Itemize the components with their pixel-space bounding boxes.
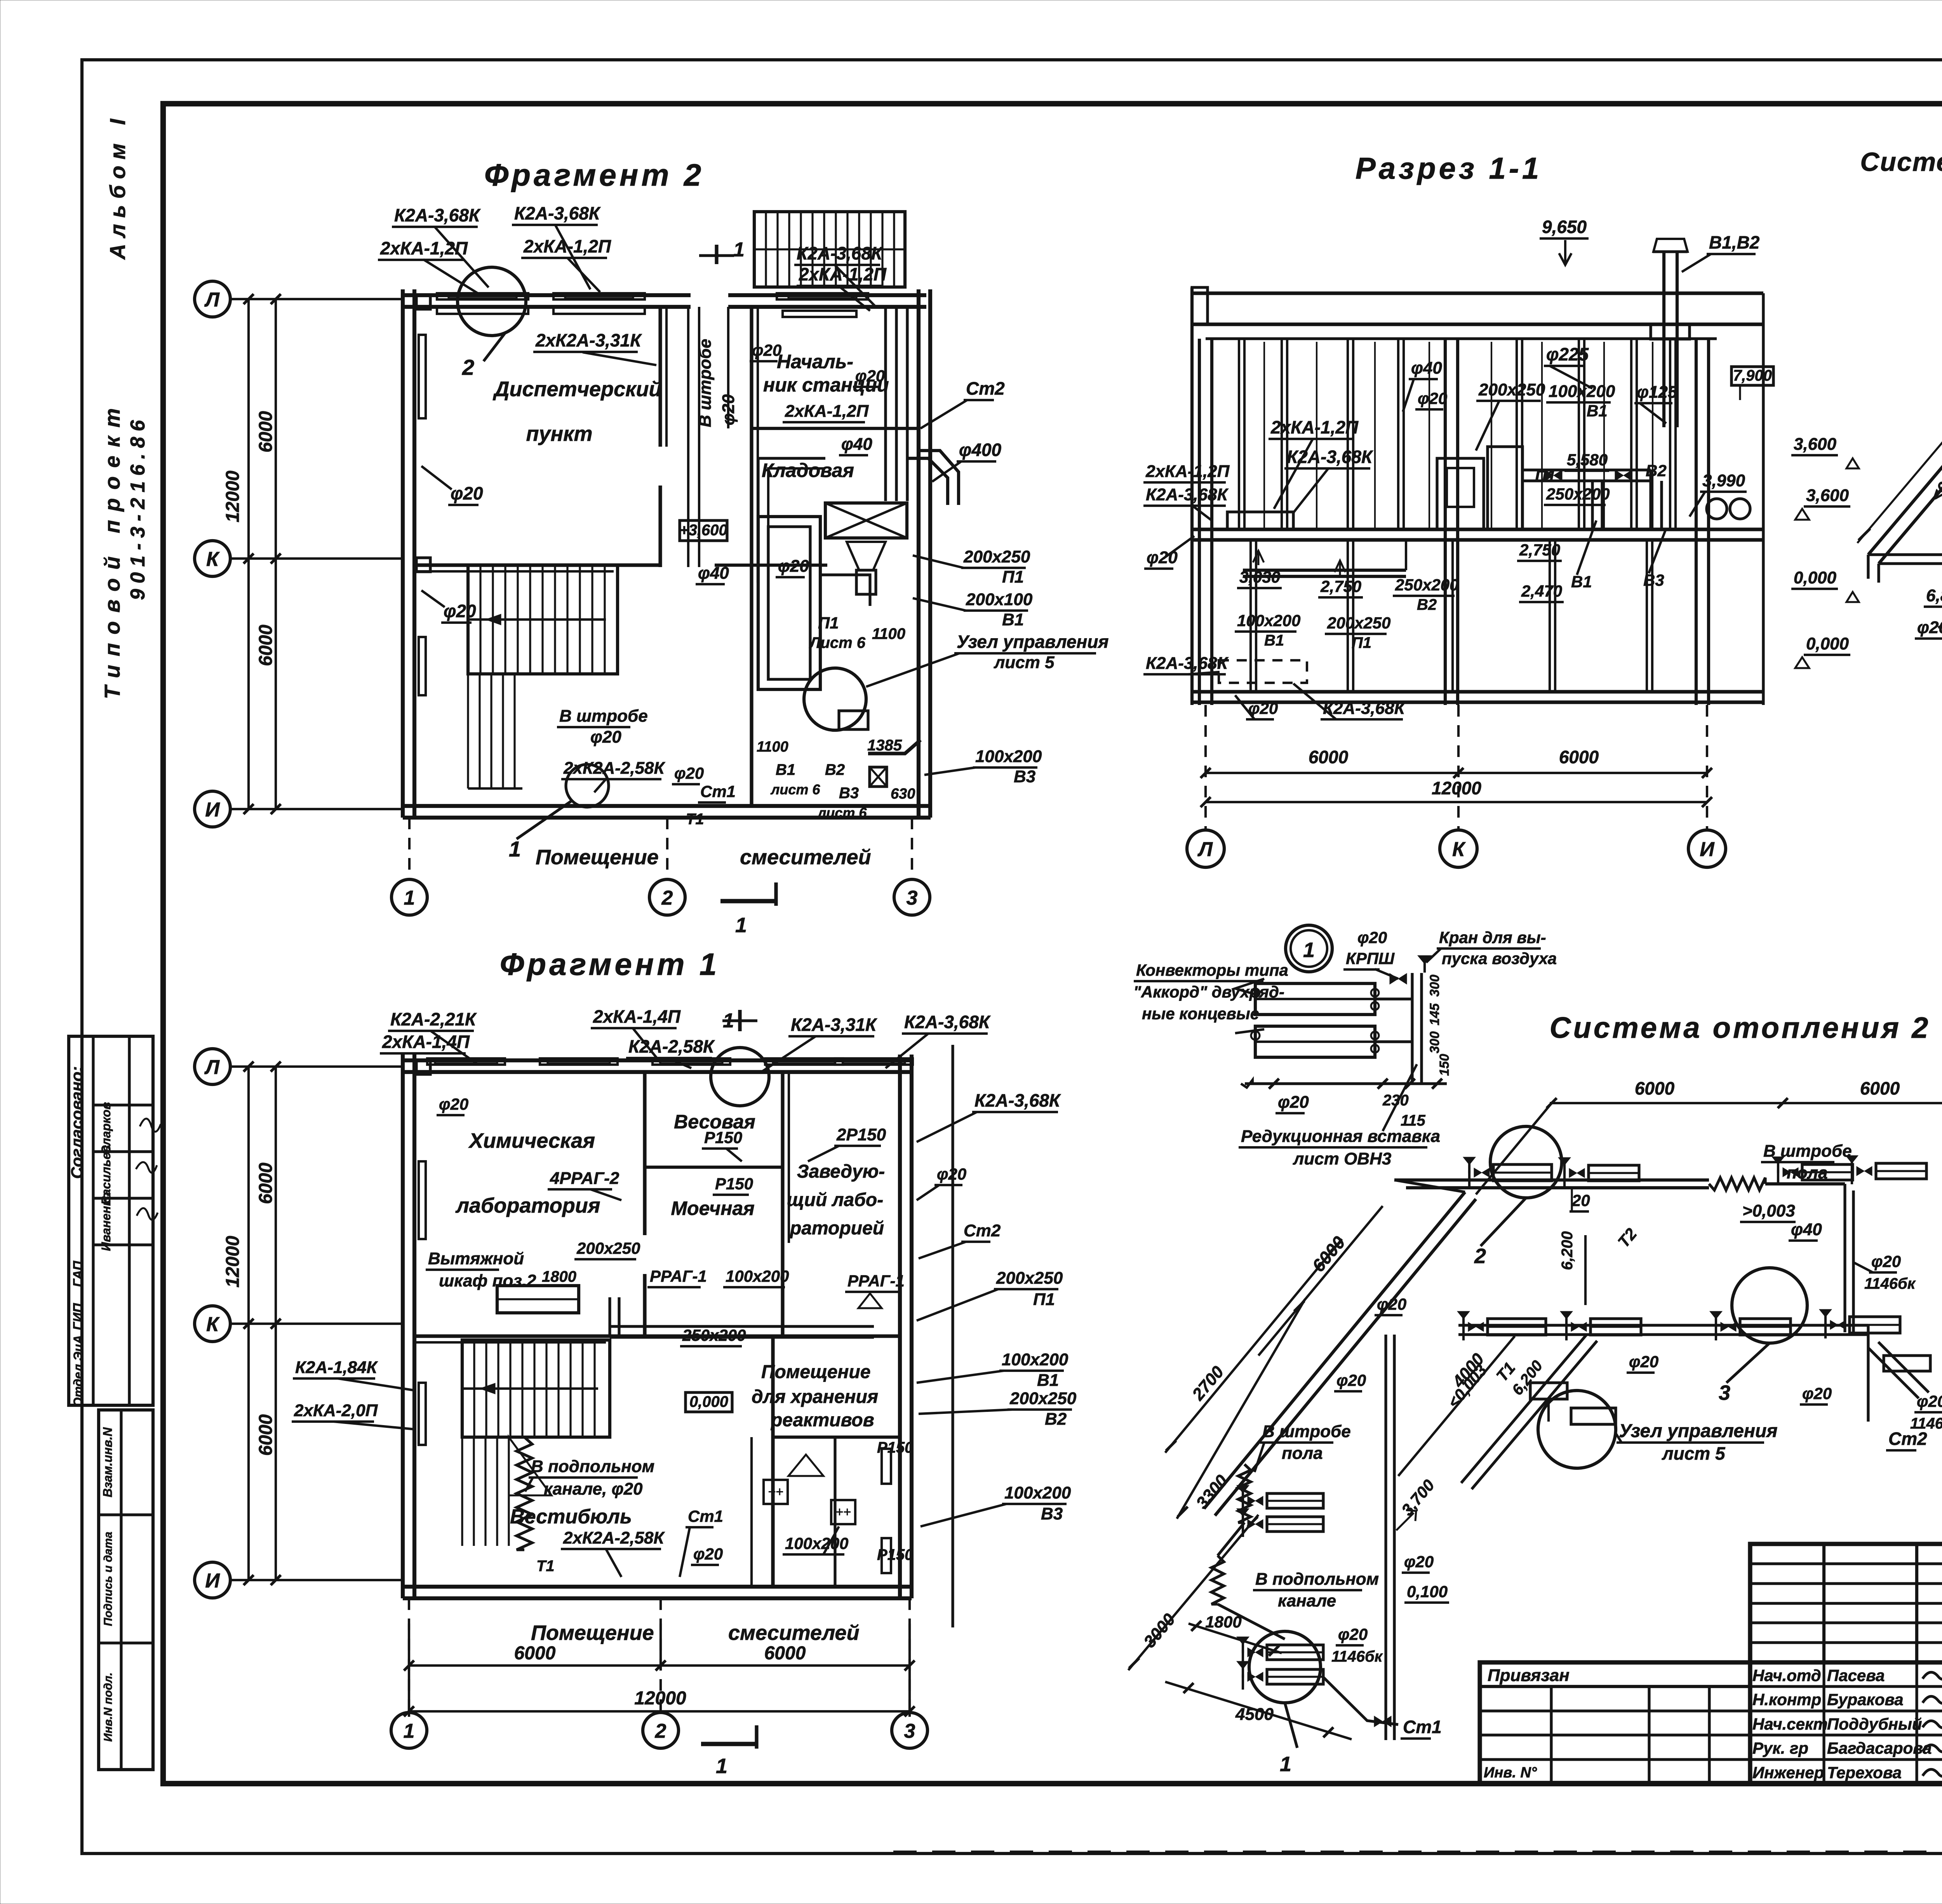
svg-text:++: ++ [768, 1485, 783, 1499]
svg-text:4РРАГ-2: 4РРАГ-2 [550, 1169, 619, 1188]
svg-text:Редукционная вставка: Редукционная вставка [1241, 1127, 1440, 1146]
svg-text:Диспетчерский: Диспетчерский [493, 378, 662, 401]
svg-text:1: 1 [404, 887, 415, 909]
svg-text:К2А-3,68К: К2А-3,68К [514, 203, 601, 223]
svg-text:100х200: 100х200 [1002, 1350, 1068, 1369]
svg-text:6000: 6000 [1309, 747, 1349, 767]
svg-text:φ20: φ20 [693, 1545, 723, 1563]
svg-text:2хК2А-2,58К: 2хК2А-2,58К [563, 759, 666, 778]
svg-text:2хКА-1,2П: 2хКА-1,2П [1270, 417, 1359, 437]
svg-text:К2А-2,58К: К2А-2,58К [628, 1036, 715, 1056]
svg-text:В штробе: В штробе [559, 707, 648, 726]
svg-text:К: К [1452, 838, 1466, 861]
svg-text:Система отопления 2: Система отопления 2 [1550, 1011, 1931, 1044]
svg-text:шкаф поз.2: шкаф поз.2 [439, 1271, 536, 1290]
svg-text:12000: 12000 [223, 1236, 243, 1288]
svg-text:2Р150: 2Р150 [836, 1125, 886, 1144]
svg-text:Моечная: Моечная [671, 1197, 754, 1219]
svg-text:Иваненко: Иваненко [99, 1192, 113, 1251]
svg-text:12000: 12000 [1432, 778, 1481, 798]
svg-text:К2А-3,68К: К2А-3,68К [1146, 654, 1229, 673]
svg-text:100х200: 100х200 [975, 747, 1042, 766]
svg-text:Багдасарова: Багдасарова [1827, 1739, 1932, 1757]
svg-text:φ20: φ20 [1629, 1352, 1658, 1371]
svg-text:φ20: φ20 [1377, 1295, 1406, 1313]
svg-text:1800: 1800 [542, 1268, 576, 1285]
svg-text:К2А-1,84К: К2А-1,84К [295, 1358, 378, 1377]
svg-text:Л: Л [1197, 838, 1213, 861]
svg-text:φ20: φ20 [444, 601, 476, 621]
svg-text:9,650: 9,650 [1542, 217, 1587, 237]
svg-text:щий лабо-: щий лабо- [787, 1190, 883, 1210]
svg-text:Узел управления: Узел управления [1619, 1421, 1778, 1441]
svg-text:φ20: φ20 [1248, 699, 1278, 717]
svg-text:Конвекторы типа: Конвекторы типа [1136, 961, 1288, 979]
svg-text:12000: 12000 [223, 470, 243, 522]
svg-text:2,750: 2,750 [1320, 577, 1361, 595]
svg-text:Кладовая: Кладовая [762, 459, 854, 481]
svg-text:φ40: φ40 [698, 564, 729, 583]
svg-text:<0,003: <0,003 [1926, 453, 1942, 506]
svg-text:200х250: 200х250 [1327, 614, 1391, 632]
svg-text:2хКА-1,2П: 2хКА-1,2П [1145, 462, 1230, 481]
svg-text:В штробе: В штробе [696, 339, 715, 427]
svg-text:Вестибюль: Вестибюль [510, 1505, 632, 1528]
svg-text:Заведую-: Заведую- [797, 1161, 885, 1182]
svg-text:лист 6: лист 6 [770, 781, 820, 797]
svg-text:ГИП: ГИП [71, 1303, 85, 1330]
svg-text:1385: 1385 [867, 737, 902, 754]
svg-text:φ20: φ20 [674, 764, 704, 782]
svg-text:2,750: 2,750 [1519, 541, 1560, 559]
svg-text:для хранения: для хранения [752, 1387, 878, 1407]
svg-text:1100: 1100 [872, 625, 905, 642]
svg-text:К2А-3,68К: К2А-3,68К [394, 205, 481, 225]
svg-text:φ20: φ20 [855, 367, 885, 385]
svg-text:6000: 6000 [1860, 1078, 1900, 1098]
svg-text:2хК2А-3,31К: 2хК2А-3,31К [535, 330, 642, 350]
svg-text:РРАГ-1: РРАГ-1 [847, 1272, 905, 1290]
svg-text:канале, φ20: канале, φ20 [544, 1479, 643, 1498]
svg-text:1: 1 [716, 1754, 727, 1778]
svg-text:пола: пола [1787, 1163, 1828, 1182]
svg-text:смесителей: смесителей [740, 846, 871, 869]
svg-text:250х200: 250х200 [1546, 485, 1610, 503]
svg-text:6000: 6000 [256, 1414, 276, 1456]
svg-text:φ40: φ40 [1411, 359, 1442, 378]
svg-text:Нач.сект: Нач.сект [1752, 1715, 1828, 1733]
svg-text:2хКА-1,2П: 2хКА-1,2П [799, 264, 887, 284]
svg-text:В штробе: В штробе [1763, 1142, 1852, 1161]
svg-text:В1: В1 [776, 761, 795, 778]
svg-text:2: 2 [1474, 1244, 1486, 1268]
svg-text:Л: Л [204, 289, 220, 311]
svg-text:В штробе: В штробе [1262, 1422, 1351, 1441]
svg-text:0,000: 0,000 [689, 1393, 728, 1410]
svg-text:φ225: φ225 [1546, 344, 1589, 364]
svg-text:2хКА-1,2П: 2хКА-1,2П [785, 402, 869, 421]
svg-text:лист 6: лист 6 [817, 805, 867, 821]
svg-text:Р150: Р150 [704, 1128, 742, 1147]
svg-text:Подпись и дата: Подпись и дата [102, 1532, 115, 1626]
svg-text:Ст1: Ст1 [1403, 1717, 1442, 1737]
svg-text:К2А-3,68К: К2А-3,68К [974, 1090, 1061, 1110]
svg-text:6,200: 6,200 [1559, 1231, 1576, 1270]
svg-text:200х250: 200х250 [963, 547, 1030, 566]
svg-text:145: 145 [1427, 1003, 1442, 1025]
svg-text:100х200: 100х200 [1004, 1483, 1071, 1502]
svg-text:901-3-216.86: 901-3-216.86 [127, 415, 149, 600]
svg-text:250х200: 250х200 [1395, 576, 1459, 594]
svg-text:Терехова: Терехова [1827, 1763, 1902, 1782]
svg-text:В2: В2 [1417, 596, 1437, 613]
svg-text:1: 1 [404, 1720, 415, 1742]
svg-text:В1: В1 [1037, 1371, 1059, 1390]
svg-text:7,900: 7,900 [1733, 367, 1772, 384]
svg-text:Помещение: Помещение [536, 846, 659, 869]
svg-text:2хКА-1,4П: 2хКА-1,4П [593, 1006, 681, 1027]
svg-text:1: 1 [733, 238, 745, 261]
svg-text:Р150: Р150 [715, 1175, 753, 1193]
svg-text:РРАГ-1: РРАГ-1 [650, 1267, 707, 1285]
svg-text:Ст2: Ст2 [964, 1221, 1001, 1240]
svg-text:П1: П1 [1535, 467, 1556, 485]
svg-text:3300: 3300 [1192, 1471, 1232, 1513]
svg-text:6,800: 6,800 [1926, 586, 1942, 605]
svg-text:2: 2 [655, 1720, 666, 1742]
svg-text:реактивов: реактивов [770, 1410, 874, 1431]
svg-text:К: К [206, 1313, 220, 1336]
svg-text:φ125: φ125 [1637, 383, 1677, 402]
svg-text:Привязан: Привязан [1488, 1666, 1570, 1685]
svg-text:6000: 6000 [256, 1163, 276, 1204]
svg-text:ные концевые: ные концевые [1142, 1004, 1259, 1023]
svg-text:2: 2 [661, 887, 673, 909]
svg-text:3,600: 3,600 [1794, 435, 1837, 454]
svg-text:Началь-: Началь- [777, 351, 853, 372]
svg-text:3: 3 [1719, 1381, 1730, 1405]
svg-text:200х250: 200х250 [996, 1269, 1063, 1288]
svg-text:φ20: φ20 [1871, 1252, 1901, 1270]
svg-text:К2А-3,68К: К2А-3,68К [1323, 699, 1406, 718]
svg-text:Т1: Т1 [686, 811, 704, 828]
svg-text:200х250: 200х250 [1009, 1389, 1077, 1408]
svg-text:0,100: 0,100 [1407, 1582, 1448, 1601]
svg-text:Т1: Т1 [536, 1558, 555, 1575]
svg-text:Разрез 1-1: Разрез 1-1 [1356, 151, 1542, 185]
svg-text:В1: В1 [1587, 402, 1608, 420]
svg-text:φ20: φ20 [719, 394, 738, 425]
svg-text:2хКА-1,2П: 2хКА-1,2П [523, 236, 611, 256]
svg-text:φ20: φ20 [1418, 389, 1447, 407]
svg-text:φ20: φ20 [1357, 928, 1387, 947]
svg-text:4500: 4500 [1235, 1705, 1274, 1724]
svg-text:В3: В3 [1014, 767, 1035, 786]
svg-text:2: 2 [462, 355, 474, 379]
svg-text:К2А-3,31К: К2А-3,31К [791, 1015, 877, 1035]
svg-text:Рук. гр: Рук. гр [1752, 1739, 1808, 1757]
svg-text:Ст1: Ст1 [688, 1507, 723, 1525]
svg-text:2хКА-2,0П: 2хКА-2,0П [294, 1401, 378, 1420]
svg-text:Т2: Т2 [1614, 1225, 1641, 1251]
svg-text:К2А-3,68К: К2А-3,68К [1287, 447, 1373, 467]
svg-text:раторией: раторией [789, 1218, 884, 1239]
svg-text:φ20: φ20 [778, 557, 809, 576]
svg-text:++: ++ [835, 1505, 851, 1519]
svg-text:пола: пола [1282, 1444, 1323, 1463]
svg-text:φ40: φ40 [841, 435, 872, 454]
svg-text:В1: В1 [1002, 610, 1024, 629]
svg-text:100х200: 100х200 [726, 1267, 789, 1285]
svg-text:Нач.отд: Нач.отд [1752, 1666, 1821, 1685]
svg-text:100х200: 100х200 [785, 1534, 849, 1552]
svg-text:1146бк: 1146бк [1910, 1415, 1942, 1432]
svg-text:φ20: φ20 [1338, 1625, 1368, 1643]
svg-text:Альбом I: Альбом I [105, 113, 130, 260]
svg-text:630: 630 [891, 786, 915, 802]
svg-text:1: 1 [735, 914, 747, 937]
svg-text:+3,600: +3,600 [679, 522, 727, 539]
svg-text:лаборатория: лаборатория [455, 1194, 600, 1217]
svg-text:Буракова: Буракова [1827, 1690, 1904, 1709]
svg-text:P150: P150 [877, 1439, 913, 1456]
svg-text:Поддубный: Поддубный [1827, 1715, 1922, 1733]
svg-text:20: 20 [1571, 1191, 1590, 1210]
svg-text:Отдел ЭиА: Отдел ЭиА [71, 1335, 85, 1407]
svg-text:1: 1 [1303, 938, 1315, 962]
svg-text:К2А-3,68К: К2А-3,68К [1146, 485, 1229, 504]
svg-text:12000: 12000 [634, 1688, 686, 1709]
svg-text:6000: 6000 [514, 1643, 556, 1664]
svg-text:К2А-3,68К: К2А-3,68К [797, 243, 883, 263]
svg-text:Пасева: Пасева [1827, 1666, 1885, 1685]
svg-text:К2А-3,68К: К2А-3,68К [904, 1012, 991, 1032]
svg-text:Фрагмент 2: Фрагмент 2 [484, 158, 704, 192]
svg-text:2хКА-1,4П: 2хКА-1,4П [382, 1032, 470, 1052]
svg-text:P150: P150 [877, 1546, 913, 1563]
svg-text:И: И [205, 1570, 220, 1592]
svg-text:200х250: 200х250 [576, 1239, 640, 1257]
svg-text:2,470: 2,470 [1521, 582, 1562, 600]
svg-text:К: К [206, 548, 220, 571]
svg-text:Помещение: Помещение [761, 1362, 870, 1382]
svg-text:3,030: 3,030 [1239, 568, 1280, 586]
svg-text:В3: В3 [1643, 571, 1664, 589]
svg-text:φ20: φ20 [439, 1095, 468, 1113]
svg-text:>0,003: >0,003 [1742, 1201, 1795, 1220]
svg-text:П1: П1 [1352, 634, 1371, 651]
svg-text:Инженер: Инженер [1752, 1763, 1824, 1782]
svg-text:φ20: φ20 [1802, 1384, 1832, 1403]
svg-text:3: 3 [904, 1720, 915, 1742]
svg-text:канале: канале [1278, 1591, 1336, 1610]
svg-text:250х200: 250х200 [682, 1326, 746, 1344]
svg-text:3,990: 3,990 [1702, 471, 1745, 490]
svg-text:КРПШ: КРПШ [1346, 949, 1395, 968]
svg-text:100х200: 100х200 [1237, 611, 1301, 630]
svg-text:3,600: 3,600 [1806, 486, 1849, 505]
svg-text:6000: 6000 [1635, 1078, 1675, 1098]
svg-text:0,000: 0,000 [1794, 568, 1837, 587]
svg-text:1146бк: 1146бк [1864, 1275, 1916, 1292]
svg-text:пуска воздуха: пуска воздуха [1442, 949, 1557, 968]
svg-text:смесителей: смесителей [728, 1621, 860, 1645]
svg-text:6,200: 6,200 [1509, 1358, 1546, 1399]
svg-text:В1,В2: В1,В2 [1709, 232, 1760, 252]
svg-text:300: 300 [1427, 1031, 1442, 1053]
svg-text:В3: В3 [839, 785, 859, 802]
svg-text:Взам.инв.N: Взам.инв.N [101, 1427, 115, 1497]
svg-text:Инв.N подл.: Инв.N подл. [102, 1673, 115, 1742]
svg-text:лист 5: лист 5 [994, 653, 1055, 672]
svg-text:1100: 1100 [757, 739, 788, 755]
svg-text:Л: Л [204, 1056, 220, 1079]
svg-text:пункт: пункт [526, 422, 592, 446]
svg-text:Типовой проект: Типовой проект [100, 400, 124, 699]
svg-text:ГАП: ГАП [71, 1260, 85, 1287]
svg-text:φ20: φ20 [1278, 1093, 1309, 1112]
svg-text:6000: 6000 [1559, 747, 1599, 767]
svg-text:Н.контр: Н.контр [1752, 1690, 1821, 1709]
svg-text:В1: В1 [1264, 632, 1284, 649]
svg-text:100х200: 100х200 [1549, 382, 1615, 401]
svg-text:В подпольном: В подпольном [1255, 1570, 1379, 1589]
svg-text:φ20: φ20 [937, 1165, 966, 1183]
svg-text:лист ОВН3: лист ОВН3 [1293, 1149, 1391, 1168]
svg-text:И: И [1700, 838, 1715, 861]
svg-text:6000: 6000 [764, 1643, 806, 1664]
svg-text:В2: В2 [1045, 1410, 1067, 1429]
svg-text:Кран для вы-: Кран для вы- [1439, 928, 1546, 947]
svg-text:Вытяжной: Вытяжной [428, 1249, 524, 1268]
svg-text:П1: П1 [1033, 1290, 1055, 1309]
svg-text:2хК2А-2,58К: 2хК2А-2,58К [563, 1528, 665, 1547]
svg-text:Система теплоснабжения установ: Система теплоснабжения установки П1 [1860, 147, 1942, 177]
svg-text:3: 3 [907, 887, 918, 909]
svg-text:Помещение: Помещение [531, 1621, 654, 1645]
svg-text:φ400: φ400 [959, 440, 1002, 460]
svg-text:1: 1 [1280, 1753, 1291, 1776]
svg-text:П1: П1 [818, 614, 839, 632]
svg-text:6000: 6000 [256, 411, 276, 453]
svg-text:φ40: φ40 [1791, 1220, 1822, 1239]
svg-text:Узел управления: Узел управления [957, 632, 1109, 652]
svg-text:300: 300 [1427, 975, 1442, 997]
svg-text:"Аккорд" двухряд-: "Аккорд" двухряд- [1133, 983, 1284, 1001]
svg-text:φ20: φ20 [1336, 1371, 1366, 1389]
svg-text:200х250: 200х250 [1478, 380, 1545, 399]
svg-text:Химическая: Химическая [468, 1129, 595, 1152]
svg-text:φ20: φ20 [752, 341, 781, 359]
svg-text:П1: П1 [1002, 567, 1024, 587]
svg-text:3,700: 3,700 [1398, 1476, 1438, 1519]
svg-text:Лист 6: Лист 6 [809, 634, 866, 651]
svg-text:Ст2: Ст2 [966, 378, 1005, 399]
svg-text:φ20: φ20 [1404, 1552, 1434, 1571]
svg-text:φ20: φ20 [451, 483, 483, 503]
svg-text:В2: В2 [825, 761, 845, 778]
svg-text:1146бк: 1146бк [1331, 1648, 1383, 1665]
svg-text:φ20: φ20 [1917, 1392, 1942, 1410]
svg-text:6000: 6000 [256, 625, 276, 666]
svg-text:1800: 1800 [1205, 1613, 1241, 1631]
svg-text:Инв. N°: Инв. N° [1484, 1765, 1537, 1781]
svg-text:Согласовано:: Согласовано: [68, 1066, 86, 1179]
svg-text:И: И [205, 799, 220, 821]
svg-text:φ20: φ20 [590, 727, 621, 747]
svg-text:лист 5: лист 5 [1662, 1443, 1726, 1464]
svg-text:0,000: 0,000 [1806, 634, 1849, 653]
svg-text:В подпольном: В подпольном [531, 1457, 654, 1476]
svg-text:5,580: 5,580 [1567, 451, 1608, 469]
svg-text:Ст1: Ст1 [700, 782, 736, 801]
svg-text:150: 150 [1437, 1054, 1452, 1076]
svg-text:К2А-2,21К: К2А-2,21К [390, 1009, 477, 1029]
svg-text:200х100: 200х100 [966, 590, 1033, 609]
svg-text:1: 1 [509, 837, 521, 861]
svg-text:В1: В1 [1571, 573, 1592, 591]
svg-text:В3: В3 [1041, 1504, 1063, 1523]
svg-text:Фрагмент 1: Фрагмент 1 [500, 947, 720, 982]
svg-text:2хКА-1,2П: 2хКА-1,2П [380, 238, 468, 258]
svg-text:В2: В2 [1646, 461, 1667, 480]
